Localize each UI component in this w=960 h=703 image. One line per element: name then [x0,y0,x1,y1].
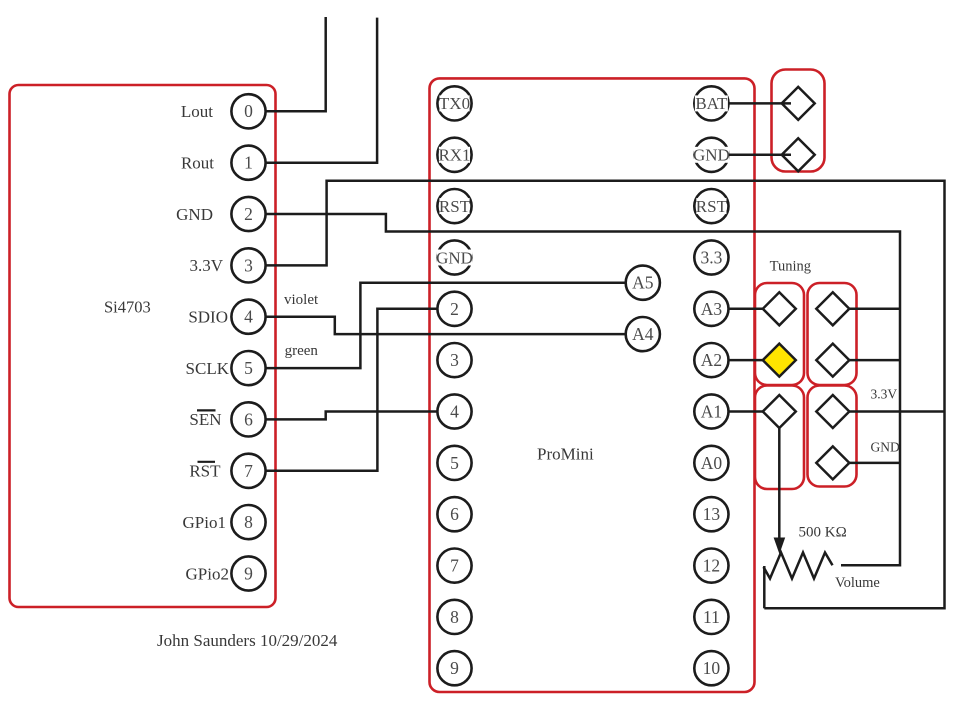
ProMini right pin A1 circle [694,394,728,428]
svg-text:7: 7 [244,461,253,481]
wire A1 to wiper diamond [729,410,771,413]
pin 9 circle of Si4703 [231,556,265,590]
ProMini left pin 8 circle [437,600,471,634]
svg-text:Volume: Volume [835,575,880,591]
svg-text:A0: A0 [701,453,723,473]
svg-text:RX1: RX1 [438,146,470,165]
potentiometer left lead down to 3.3V rail [763,566,766,608]
connector diamond tuning A3 return [816,292,849,325]
wire SCLK to A5 [256,283,626,368]
connector diamond 3.3V [816,395,849,428]
wire GND pin to diamond [729,154,791,157]
connector box J4 (volume wiper) [755,386,804,490]
svg-text:Si4703: Si4703 [104,298,151,317]
wire A3 to tuning diamond [729,308,771,311]
ProMini right pin 3.3 circle [694,240,728,274]
svg-text:500 KΩ: 500 KΩ [799,525,847,541]
svg-text:GPio1: GPio1 [183,513,226,532]
wire Rout to antenna (up off page) [256,18,377,163]
potentiometer R1 500 K zigzag body [764,553,833,579]
pin 6 circle of Si4703 [231,402,265,436]
pin 8 circle of Si4703 [231,505,265,539]
svg-text:ProMini: ProMini [537,445,594,464]
svg-text:BAT: BAT [695,94,728,113]
svg-text:GND: GND [436,248,473,267]
connector diamond tuning A2 (selected, yellow) [763,344,796,377]
overline for SEN [197,409,216,411]
wire tuning diamond row A2 to GND rail [849,359,900,362]
svg-text:1: 1 [244,153,253,173]
connector diamond tuning A3 [763,292,796,325]
svg-text:A5: A5 [632,273,654,293]
connector box J5 (3.3V/GND column) [808,386,857,487]
svg-text:4: 4 [244,307,253,327]
wire Lout to antenna (up off page) [256,17,326,111]
ProMini left pin RX1 circle [437,138,471,172]
ProMini pin A5 circle [626,266,660,300]
svg-text:3.3V: 3.3V [871,387,898,402]
connector diamond GND [782,138,815,171]
svg-text:0: 0 [244,101,253,121]
connector diamond wiper A1 [763,395,796,428]
svg-text:3.3V: 3.3V [189,256,223,275]
IC box U1 Si4703 outline [10,85,276,607]
ProMini right pin 11 circle [694,600,728,634]
pin 1 circle of Si4703 [231,146,265,180]
ProMini right pin GND circle [693,138,730,172]
overline for RST [198,461,216,463]
svg-text:8: 8 [244,512,253,532]
svg-text:4: 4 [450,401,459,421]
wire 3.3V net: Si4703 pin3 across top, down right side to pot low end [256,181,945,609]
ProMini left pin 4 circle [437,394,471,428]
svg-text:TX0: TX0 [439,94,470,113]
ProMini left pin 6 circle [437,497,471,531]
svg-text:SDIO: SDIO [188,308,228,327]
pin 3 circle of Si4703 [231,248,265,282]
svg-text:GND: GND [176,205,213,224]
svg-text:6: 6 [450,504,459,524]
svg-text:6: 6 [244,409,253,429]
svg-text:Rout: Rout [181,154,214,173]
ProMini left pin TX0 circle [437,86,471,120]
svg-text:8: 8 [450,607,459,627]
svg-text:2: 2 [450,299,459,319]
pin 5 circle of Si4703 [231,351,265,385]
svg-text:5: 5 [244,358,253,378]
wire tuning diamond row A3 to GND rail [849,308,900,311]
svg-text:Lout: Lout [181,102,213,121]
svg-text:violet: violet [284,292,319,308]
ProMini right pin A0 circle [694,446,728,480]
pin 0 circle of Si4703 [231,94,265,128]
pin 7 circle of Si4703 [231,454,265,488]
svg-text:A4: A4 [632,324,654,344]
connector diamond BAT [782,87,815,120]
ProMini right pin 12 circle [694,549,728,583]
module box ProMini outline [430,78,755,692]
svg-text:RST: RST [439,197,471,216]
ProMini left pin GND circle [436,240,473,274]
svg-text:2: 2 [244,204,253,224]
svg-text:3: 3 [244,255,253,275]
wire BAT pin to diamond [729,102,791,105]
svg-text:RST: RST [696,197,728,216]
svg-text:Tuning: Tuning [770,259,811,275]
wire GND net: Si4703 pin2 to GND rail, down right side to volume pot [256,214,900,565]
svg-text:GND: GND [871,440,900,455]
svg-text:3.3: 3.3 [700,247,722,267]
svg-text:A2: A2 [701,350,722,370]
svg-text:SCLK: SCLK [186,359,230,378]
svg-text:A3: A3 [701,299,723,319]
ProMini left pin 5 circle [437,446,471,480]
svg-text:3: 3 [450,350,459,370]
svg-text:13: 13 [703,504,721,524]
ProMini left pin 9 circle [437,651,471,685]
svg-text:GPio2: GPio2 [186,564,229,583]
ProMini right pin RST circle [694,189,728,223]
wire A2 to tuning diamond (yellow) [729,359,771,362]
svg-text:A1: A1 [701,401,722,421]
svg-text:SEN: SEN [189,410,221,429]
svg-text:John Saunders 10/29/2024: John Saunders 10/29/2024 [157,631,338,650]
ProMini left pin 2 circle [437,292,471,326]
connector box J3 (tuning right column) [808,283,857,385]
wire SDIO to A4 [256,317,626,334]
svg-text:9: 9 [450,658,459,678]
connector box J1 (BAT/GND diamonds) [772,70,825,172]
ProMini right pin A2 circle [694,343,728,377]
wiper arrow from A1 diamond to potentiometer [774,428,786,554]
ProMini right pin 10 circle [694,651,728,685]
ProMini right pin 13 circle [694,497,728,531]
pin 4 circle of Si4703 [231,300,265,334]
pin 2 circle of Si4703 [231,197,265,231]
connector box J2 (tuning left column) [755,283,804,385]
connector diamond tuning A2 return [816,344,849,377]
svg-text:12: 12 [703,556,721,576]
svg-text:9: 9 [244,564,253,584]
svg-text:green: green [285,343,319,359]
svg-text:RST: RST [189,462,221,481]
wire GND diamond to GND rail [849,462,900,465]
svg-text:5: 5 [450,453,459,473]
svg-text:10: 10 [703,658,721,678]
ProMini right pin A3 circle [694,292,728,326]
svg-text:11: 11 [703,607,720,627]
wire 3.3V diamond to 3.3V rail [849,410,944,413]
ProMini left pin 3 circle [437,343,471,377]
svg-text:GND: GND [693,146,730,165]
svg-text:7: 7 [450,556,459,576]
wire SEN to ProMini pin 4 [256,412,438,420]
ProMini left pin 7 circle [437,549,471,583]
connector diamond GND return [816,446,849,479]
ProMini right pin BAT circle [694,86,728,120]
wire RST to ProMini pin 2 [256,309,438,471]
ProMini left pin RST circle [437,189,471,223]
ProMini pin A4 circle [626,317,660,351]
